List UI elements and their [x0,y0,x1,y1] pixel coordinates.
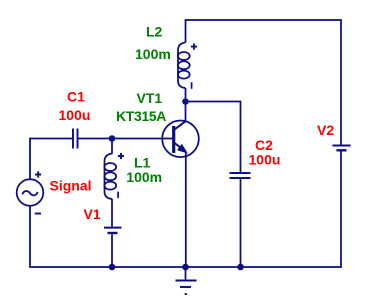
wire C1 left lead [30,139,73,180]
svg-text:V1: V1 [84,206,101,222]
capacitor C1 [73,129,78,149]
svg-text:VT1: VT1 [137,90,163,106]
wire C2 bottom lead [240,179,242,267]
polarity plus L2 [191,44,197,50]
inductor L1 [104,154,116,200]
node V1 bottom [109,264,116,271]
node collector junction [182,98,189,105]
polarity minus Signal [35,213,41,215]
wire top rail with V2 upper lead [186,20,342,145]
battery V1 [104,228,122,233]
svg-text:V2: V2 [317,122,334,138]
svg-text:Signal: Signal [50,178,92,194]
transistor VT1 [162,121,199,158]
polarity plus Signal [35,171,41,177]
source Signal (AC) [17,179,44,206]
svg-text:C1: C1 [67,89,85,105]
wire emitter lead [185,152,187,267]
wire L1 top lead [111,139,113,154]
svg-text:100m: 100m [135,46,171,62]
wire V1 bottom lead [111,234,113,267]
polarity plus L1 [118,153,124,159]
polarity minus L2 [191,82,193,89]
wire C1 right lead [78,138,112,140]
wire collector lead [185,102,187,122]
wire junction to C2 [186,102,241,173]
svg-text:100m: 100m [126,169,162,185]
wire base lead [112,138,173,140]
node C2 bottom [237,264,244,271]
battery V2 [333,146,351,151]
wire L2 bottom lead [185,88,187,102]
wire L1 to V1 [111,199,113,227]
polarity minus L1 [117,192,119,199]
wire source bottom lead, bottom rail, V2 lower lead [30,152,341,268]
inductor L2 [178,43,190,89]
svg-text:100u: 100u [249,152,281,168]
capacitor C2 [230,173,251,178]
svg-text:KT315A: KT315A [116,108,166,124]
svg-text:C2: C2 [255,137,273,153]
ground [176,267,197,294]
node emitter-ground junction [182,264,189,271]
svg-text:L2: L2 [146,24,163,40]
svg-text:100u: 100u [59,107,91,123]
node base junction [109,135,116,142]
